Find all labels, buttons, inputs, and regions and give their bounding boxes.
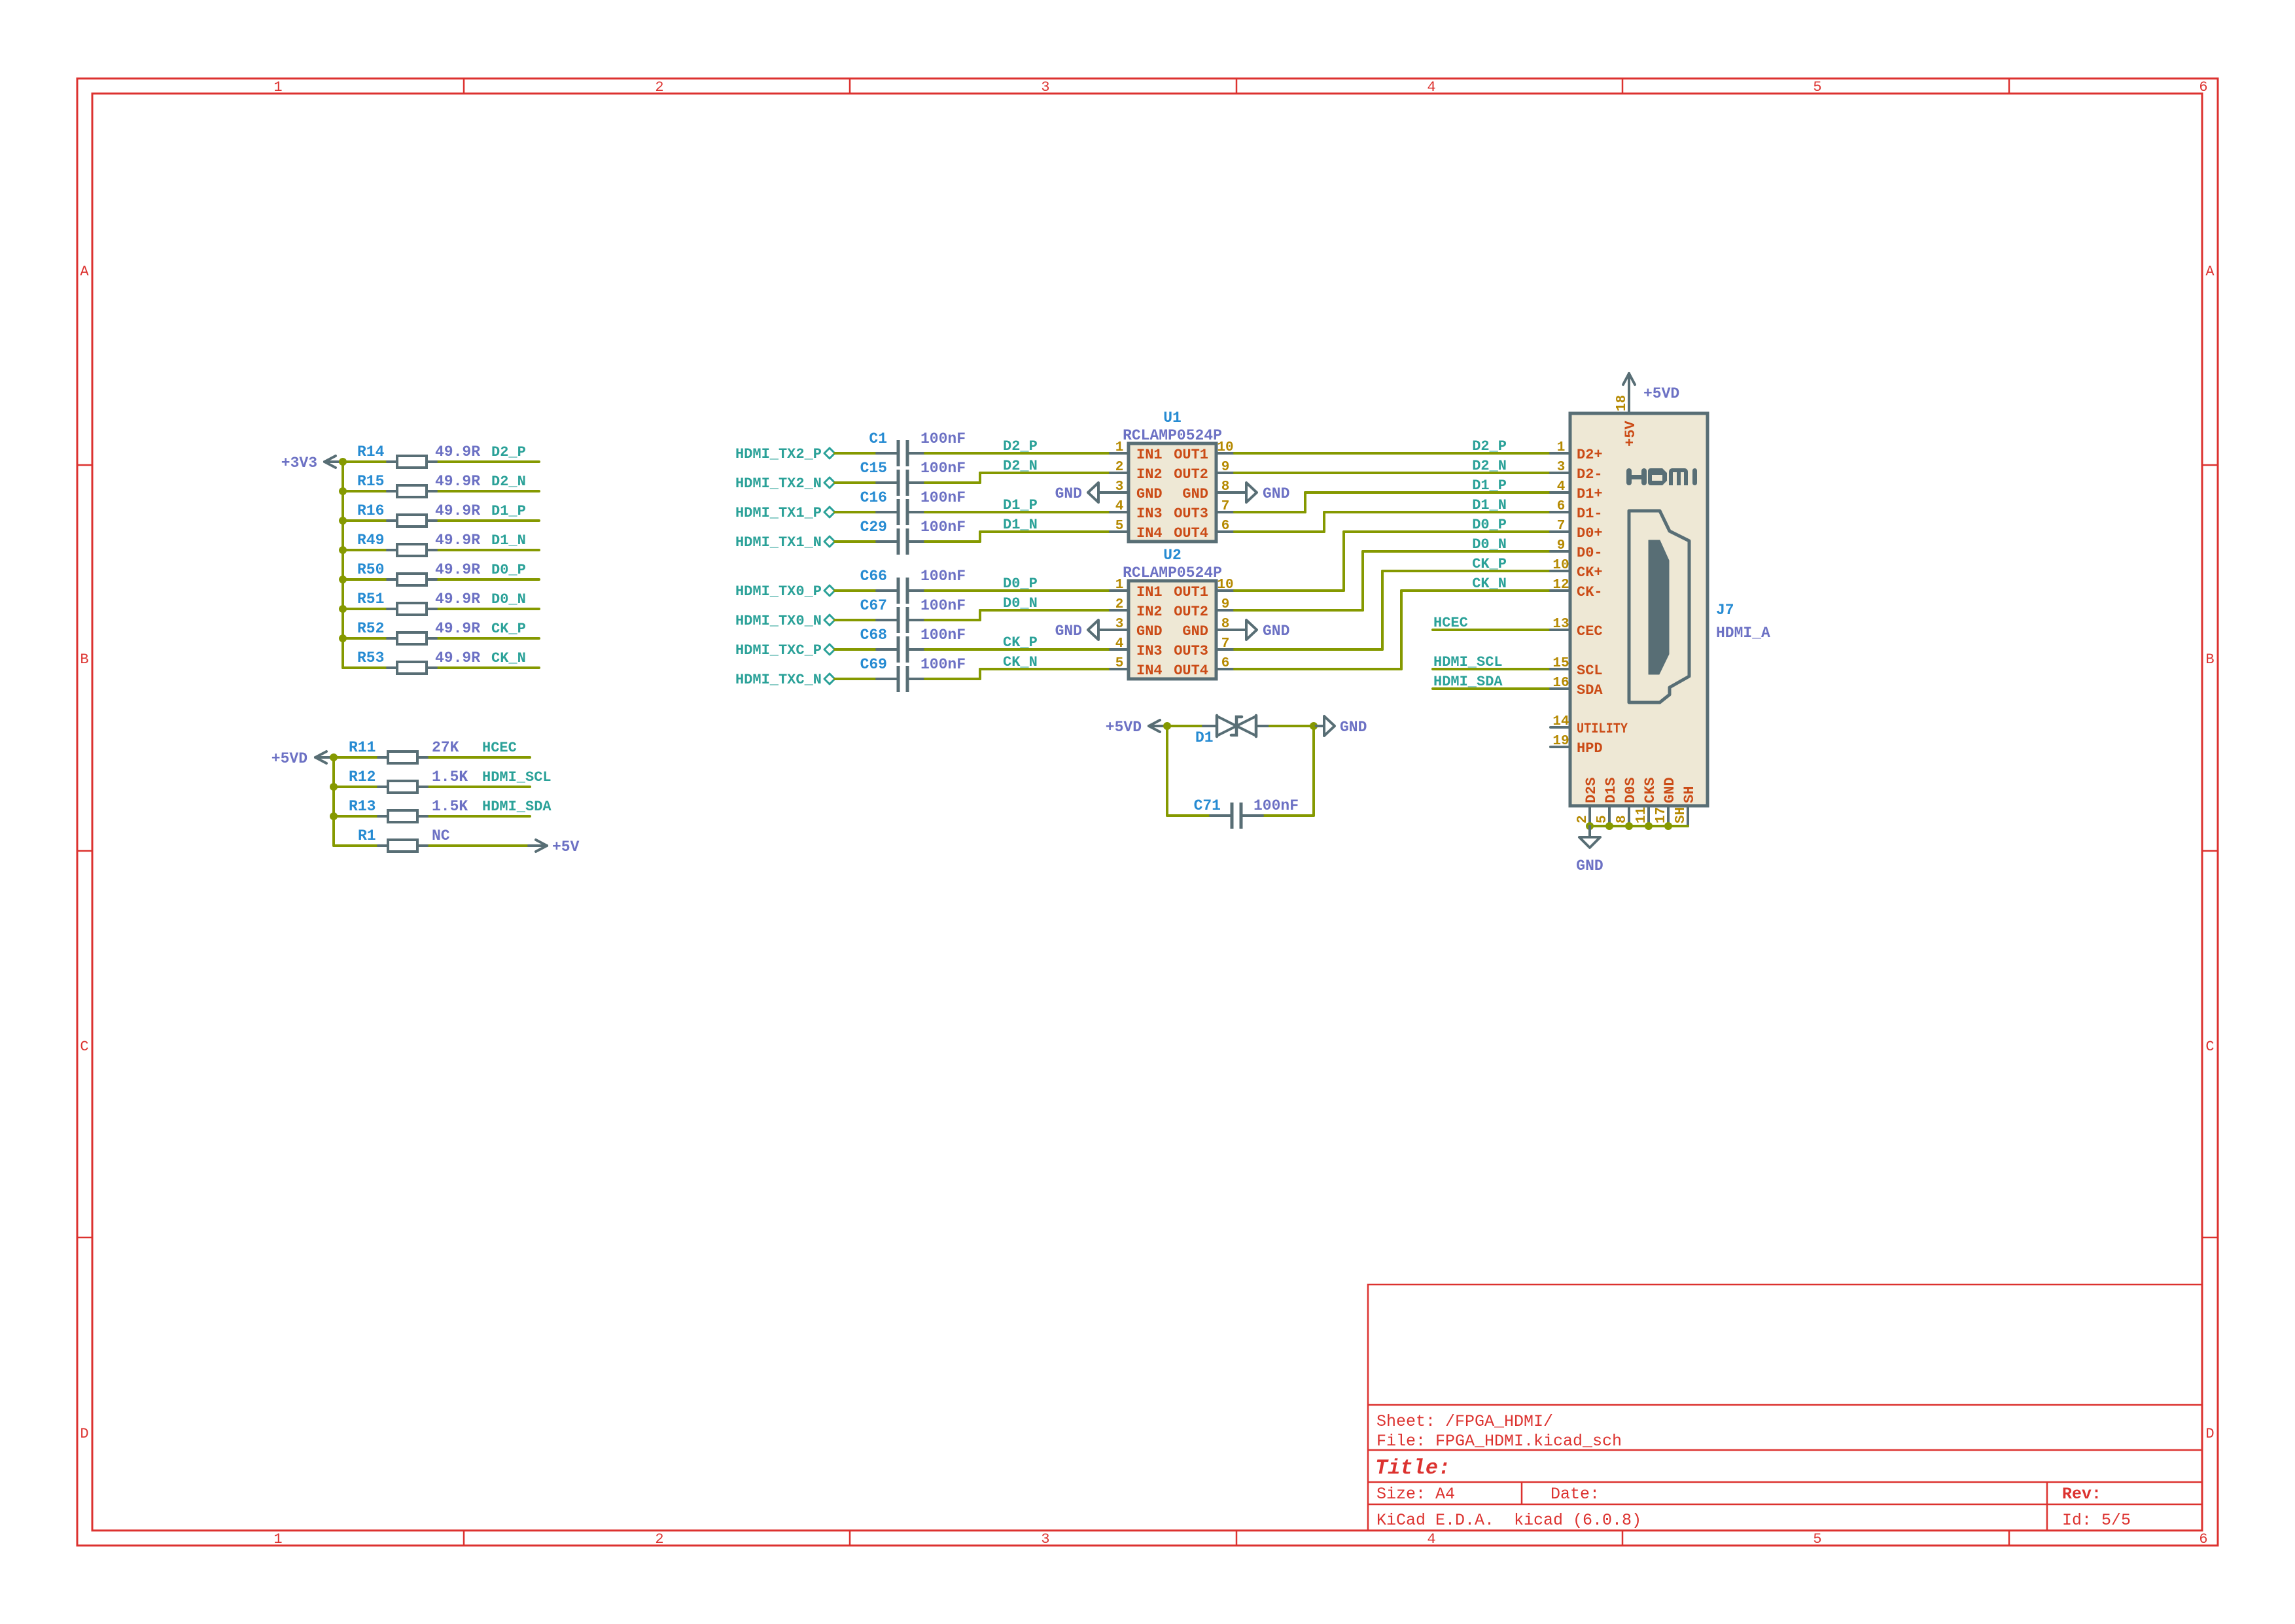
svg-text:HPD: HPD (1577, 740, 1603, 757)
net label D1_N (491, 532, 526, 549)
svg-text:D0-: D0- (1577, 545, 1603, 561)
J7 pin 16 SDA (1550, 676, 1603, 699)
svg-text:D0_P: D0_P (1003, 576, 1038, 592)
svg-text:4: 4 (1427, 79, 1435, 95)
wire R50 row (343, 578, 539, 581)
J7 pin SH SH (1673, 786, 1698, 826)
capacitor C69 100nF (860, 656, 966, 692)
hierarchical label HDMI_TXC_N (735, 672, 835, 688)
junction at +3V3 bus row 2 (339, 487, 347, 495)
U2 pin 5 IN4 (1110, 656, 1163, 679)
J7 pin 6 D1- (1550, 499, 1603, 522)
ground at U1 pin 3 (1055, 483, 1110, 502)
wire R52 row (343, 637, 539, 640)
net label CK_P at U2 input (1003, 634, 1038, 651)
wire D1 to GND (1270, 725, 1314, 727)
svg-text:49.9R: 49.9R (435, 620, 480, 637)
svg-text:HDMI_TXC_P: HDMI_TXC_P (735, 642, 822, 659)
wire C66 to U pin (925, 589, 1110, 592)
hierarchical label HDMI_TX2_P (735, 446, 835, 462)
svg-text:R49: R49 (357, 532, 384, 549)
svg-text:+5V: +5V (1622, 421, 1639, 447)
svg-text:D1+: D1+ (1577, 486, 1603, 502)
svg-text:C66: C66 (860, 568, 887, 585)
net label D2_N at J7 (1472, 458, 1507, 474)
resistor R1 (358, 827, 450, 852)
wire net HDMI_SCL to J7 (1433, 668, 1550, 670)
svg-text:D0_N: D0_N (1003, 595, 1038, 612)
power +5VD left (272, 750, 334, 767)
svg-text:11: 11 (1634, 807, 1649, 823)
svg-text:CK_P: CK_P (1472, 556, 1507, 572)
resistor R14 (357, 443, 480, 468)
svg-text:4: 4 (1427, 1531, 1435, 1547)
wire HDMI_TX0_P to C66 (835, 589, 881, 592)
svg-text:5: 5 (1115, 519, 1124, 534)
U1 pin 4 IN3 (1110, 499, 1163, 522)
svg-text:5: 5 (1813, 79, 1821, 95)
junction at +3V3 bus row 6 (339, 605, 347, 613)
svg-text:7: 7 (1221, 499, 1230, 514)
capacitor C67 100nF (860, 597, 966, 633)
svg-text:R1: R1 (358, 827, 376, 844)
U1 pin 3 GND (1110, 479, 1163, 502)
resistor R16 (357, 502, 480, 527)
svg-text:+5V: +5V (552, 838, 580, 855)
svg-text:Rev:: Rev: (2062, 1485, 2101, 1504)
hierarchical label HDMI_TX1_N (735, 534, 835, 551)
svg-text:10: 10 (1217, 440, 1233, 455)
svg-text:C67: C67 (860, 597, 887, 614)
svg-text:3: 3 (1041, 1531, 1049, 1547)
svg-text:12: 12 (1552, 578, 1569, 593)
wire net D1_P to J7 (1235, 492, 1550, 512)
svg-text:16: 16 (1552, 676, 1569, 691)
junction at +3V3 bus row 4 (339, 546, 347, 554)
svg-text:D1: D1 (1195, 729, 1214, 746)
svg-text:CK_N: CK_N (1472, 576, 1507, 592)
net label D2_P (491, 444, 526, 460)
svg-text:18: 18 (1615, 395, 1630, 411)
net label D0_N at U2 input (1003, 595, 1038, 612)
title block kicad text (1376, 1511, 1641, 1530)
svg-text:100nF: 100nF (920, 568, 966, 585)
resistor R15 (357, 473, 480, 497)
svg-text:13: 13 (1552, 617, 1569, 632)
svg-text:B: B (80, 651, 88, 668)
svg-text:1: 1 (1115, 440, 1124, 455)
resistor R51 (357, 591, 480, 615)
J7 pin 3 D2- (1550, 460, 1603, 483)
svg-text:+5VD: +5VD (1643, 385, 1679, 402)
ground at D1 (1314, 716, 1367, 736)
hierarchical label HDMI_TX0_N (735, 613, 835, 629)
J7 pin 14 UTILITY (1550, 714, 1628, 737)
svg-text:C69: C69 (860, 656, 887, 673)
svg-text:J7: J7 (1716, 602, 1734, 619)
svg-text:5: 5 (1115, 656, 1124, 671)
svg-text:100nF: 100nF (920, 597, 966, 614)
svg-text:D1S: D1S (1603, 777, 1619, 803)
U2 pin 6 OUT4 (1174, 656, 1235, 679)
junction shield bus 2 (1605, 822, 1613, 830)
svg-text:2: 2 (1115, 597, 1124, 612)
junction at +3V3 bus row 5 (339, 576, 347, 583)
svg-text:C71: C71 (1194, 797, 1221, 814)
svg-text:OUT3: OUT3 (1174, 506, 1208, 522)
junction at +5VD bus row 2 (330, 783, 338, 791)
svg-text:+5VD: +5VD (272, 750, 307, 767)
svg-text:49.9R: 49.9R (435, 649, 480, 666)
hierarchical label HDMI_TX2_N (735, 475, 835, 492)
J7 pin 4 D1+ (1550, 479, 1603, 502)
svg-text:IN1: IN1 (1136, 584, 1163, 600)
svg-text:OUT1: OUT1 (1174, 584, 1208, 600)
junction shield bus 4 (1645, 822, 1653, 830)
junction at +3V3 bus row 7 (339, 634, 347, 642)
wire HDMI_TX2_N to C15 (835, 481, 881, 484)
U2 pin 10 OUT1 (1174, 578, 1235, 600)
net label D1_P at U1 input (1003, 497, 1038, 513)
svg-text:100nF: 100nF (920, 519, 966, 536)
HDMI receptacle graphic (1629, 511, 1689, 702)
svg-text:R16: R16 (357, 502, 384, 519)
svg-text:6: 6 (1221, 656, 1230, 671)
title block file text (1376, 1432, 1622, 1451)
capacitor C68 100nF (860, 627, 966, 663)
svg-text:D1-: D1- (1577, 506, 1603, 522)
svg-text:R15: R15 (357, 473, 384, 490)
net label D1_P at J7 (1472, 477, 1507, 494)
capacitor C71 100nF (1194, 797, 1299, 829)
svg-text:U1: U1 (1163, 409, 1182, 426)
svg-text:D: D (2205, 1426, 2214, 1442)
svg-text:1: 1 (1115, 578, 1124, 593)
wire C15 to U pin (925, 473, 1110, 483)
svg-text:17: 17 (1654, 807, 1669, 823)
svg-text:A: A (80, 264, 89, 280)
J7 pin 10 CK+ (1550, 558, 1603, 581)
svg-text:HDMI_TX1_P: HDMI_TX1_P (735, 505, 822, 521)
svg-text:IN2: IN2 (1136, 466, 1163, 483)
svg-text:27K: 27K (432, 739, 459, 756)
svg-text:10: 10 (1217, 578, 1233, 593)
net label D0_N (491, 591, 526, 608)
U1 pin 6 OUT4 (1174, 519, 1235, 542)
svg-text:Sheet: /FPGA_HDMI/: Sheet: /FPGA_HDMI/ (1376, 1412, 1553, 1431)
svg-text:10: 10 (1552, 558, 1569, 573)
svg-text:D2_P: D2_P (491, 444, 526, 460)
svg-text:C: C (80, 1039, 88, 1055)
svg-text:D2_N: D2_N (491, 474, 526, 490)
wire net CK_N to J7 (1235, 591, 1550, 669)
svg-text:HCEC: HCEC (1433, 615, 1468, 631)
net label D0_N at J7 (1472, 536, 1507, 553)
hierarchical label HDMI_TX0_P (735, 583, 835, 600)
svg-text:A: A (2205, 264, 2215, 280)
svg-text:GND: GND (1136, 623, 1163, 640)
svg-text:HDMI_SDA: HDMI_SDA (1433, 674, 1503, 690)
wire +5VD to D1 (1167, 725, 1203, 727)
junction at +5VD bus row 3 (330, 812, 338, 820)
ground at U1 pin 8 (1235, 483, 1289, 502)
svg-text:CK_N: CK_N (491, 650, 526, 666)
svg-text:7: 7 (1221, 636, 1230, 651)
net label HDMI_SCL (482, 769, 552, 786)
svg-text:GND: GND (1055, 623, 1082, 640)
frame row labels (80, 264, 2215, 1442)
svg-text:R12: R12 (349, 769, 376, 786)
svg-text:D1_N: D1_N (1472, 497, 1507, 513)
title block rev text (2062, 1485, 2101, 1504)
frame column labels (273, 79, 2207, 1547)
svg-text:3: 3 (1115, 479, 1124, 494)
wire net D0_P to J7 (1235, 532, 1550, 591)
svg-text:100nF: 100nF (920, 489, 966, 506)
capacitor C29 100nF (860, 519, 966, 555)
wire R49 row (343, 549, 539, 551)
svg-text:5: 5 (1595, 815, 1610, 823)
svg-text:D1_P: D1_P (1003, 497, 1038, 513)
svg-text:R13: R13 (349, 798, 376, 815)
diode D1 TVS (1195, 716, 1270, 746)
wire C16 to U pin (925, 511, 1110, 513)
net label D0_P at U2 input (1003, 576, 1038, 592)
net label D2_P at U1 input (1003, 438, 1038, 455)
svg-text:R11: R11 (349, 739, 376, 756)
svg-text:C1: C1 (869, 430, 887, 447)
wire net HDMI_SDA to J7 (1433, 687, 1550, 690)
svg-text:D2_N: D2_N (1472, 458, 1507, 474)
svg-text:Title:: Title: (1375, 1456, 1450, 1480)
svg-text:GND: GND (1136, 486, 1163, 502)
svg-text:File: FPGA_HDMI.kicad_sch: File: FPGA_HDMI.kicad_sch (1376, 1432, 1622, 1451)
svg-text:HDMI_TX1_N: HDMI_TX1_N (735, 534, 822, 551)
resistor R49 (357, 532, 480, 556)
svg-text:6: 6 (2199, 79, 2207, 95)
junction at +3V3 bus row 3 (339, 517, 347, 525)
U2 pin 7 OUT3 (1174, 636, 1235, 659)
U1 pin 5 IN4 (1110, 519, 1163, 542)
svg-text:GND: GND (1263, 623, 1289, 640)
capacitor C1 100nF (869, 430, 966, 466)
svg-text:49.9R: 49.9R (435, 591, 480, 608)
svg-text:3: 3 (1557, 460, 1566, 475)
svg-text:1: 1 (273, 1531, 282, 1547)
svg-text:HDMI_TX2_N: HDMI_TX2_N (735, 475, 822, 492)
svg-text:C29: C29 (860, 519, 887, 536)
capacitor C66 100nF (860, 568, 966, 604)
svg-text:OUT3: OUT3 (1174, 643, 1208, 659)
svg-text:Date:: Date: (1550, 1485, 1600, 1504)
title block sheet text (1376, 1412, 1553, 1431)
net label D2_N at U1 input (1003, 458, 1038, 474)
net label CK_N (491, 650, 526, 666)
U1 pin 9 OUT2 (1174, 460, 1235, 483)
svg-text:100nF: 100nF (920, 656, 966, 673)
svg-text:KiCad E.D.A. kicad (6.0.8): KiCad E.D.A. kicad (6.0.8) (1376, 1511, 1641, 1530)
svg-text:D0+: D0+ (1577, 525, 1603, 542)
svg-text:OUT4: OUT4 (1174, 663, 1208, 679)
svg-text:RCLAMP0524P: RCLAMP0524P (1123, 427, 1222, 444)
resistor R13 (349, 798, 468, 822)
ic U2 RCLAMP0524P body (1123, 547, 1222, 679)
wire +5VD bus vertical (332, 757, 335, 846)
U2 pin 4 IN3 (1110, 636, 1163, 659)
net label CK_N at U2 input (1003, 654, 1038, 670)
svg-text:R14: R14 (357, 443, 385, 460)
svg-text:D2_P: D2_P (1472, 438, 1507, 455)
svg-text:1.5K: 1.5K (432, 769, 468, 786)
svg-text:C68: C68 (860, 627, 887, 644)
wire R16 row (343, 519, 539, 522)
wire C29 to U pin (925, 532, 1110, 542)
wire C71 left (1167, 814, 1210, 817)
power +5V (529, 838, 580, 855)
net label D2_P at J7 (1472, 438, 1507, 455)
U2 pin 3 GND (1110, 617, 1163, 640)
svg-text:IN3: IN3 (1136, 643, 1163, 659)
svg-text:OUT2: OUT2 (1174, 466, 1208, 483)
net label D0_P (491, 562, 526, 578)
U2 pin 2 IN2 (1110, 597, 1163, 620)
svg-text:RCLAMP0524P: RCLAMP0524P (1123, 564, 1222, 581)
svg-text:GND: GND (1182, 623, 1208, 640)
net label D0_P at J7 (1472, 517, 1507, 533)
junction at +5VD bus row 1 (330, 753, 338, 761)
J7 pin 1 D2+ (1550, 440, 1603, 463)
svg-text:3: 3 (1115, 617, 1124, 632)
svg-text:SDA: SDA (1577, 682, 1603, 699)
svg-text:HDMI_SDA: HDMI_SDA (482, 799, 552, 815)
wire C67 to U pin (925, 610, 1110, 620)
wire R12 row (334, 786, 530, 788)
resistor R52 (357, 620, 480, 644)
svg-text:2: 2 (655, 79, 663, 95)
ic U1 RCLAMP0524P body (1123, 409, 1222, 542)
wire net CK_P to J7 (1235, 571, 1550, 649)
net label HCEC at J7 (1433, 615, 1468, 631)
title block frame (1368, 1285, 2202, 1530)
svg-text:CK_N: CK_N (1003, 654, 1038, 670)
svg-text:100nF: 100nF (920, 627, 966, 644)
connector J7 HDMI_A body (1570, 413, 1770, 806)
svg-text:IN4: IN4 (1136, 525, 1163, 542)
J7 pin 5 D1S (1595, 777, 1619, 826)
U2 pin 1 IN1 (1110, 578, 1163, 600)
svg-text:8: 8 (1221, 617, 1230, 632)
J7 pin 12 CK- (1550, 578, 1603, 600)
junction shield bus 3 (1625, 822, 1633, 830)
title block id text (2062, 1511, 2131, 1530)
svg-text:CK_P: CK_P (491, 621, 526, 637)
power +5VD at D1 (1106, 719, 1167, 736)
svg-text:15: 15 (1552, 656, 1569, 671)
wire HDMI_TX1_P to C16 (835, 511, 881, 513)
junction D1 left (1163, 722, 1171, 730)
svg-text:D0_P: D0_P (491, 562, 526, 578)
wire C69 to U pin (925, 669, 1110, 679)
svg-text:CEC: CEC (1577, 623, 1603, 640)
J7 pin 19 HPD (1550, 734, 1603, 757)
resistor R11 (349, 739, 459, 763)
svg-text:49.9R: 49.9R (435, 561, 480, 578)
svg-text:GND: GND (1263, 485, 1289, 502)
svg-text:6: 6 (1557, 499, 1566, 514)
power +3V3 (281, 455, 343, 472)
svg-text:R52: R52 (357, 620, 384, 637)
wire D1 loop left vertical (1166, 726, 1168, 816)
svg-text:R53: R53 (357, 649, 384, 666)
svg-text:OUT4: OUT4 (1174, 525, 1208, 542)
svg-text:C16: C16 (860, 489, 887, 506)
junction shield bus 5 (1664, 822, 1672, 830)
svg-text:2: 2 (1575, 815, 1590, 823)
svg-text:1: 1 (1557, 440, 1566, 455)
wire HDMI_TX2_P to C1 (835, 452, 881, 455)
resistor R50 (357, 561, 480, 585)
svg-text:49.9R: 49.9R (435, 532, 480, 549)
wire D1 loop right vertical (1312, 726, 1315, 816)
title block date text (1550, 1485, 1600, 1504)
svg-text:IN3: IN3 (1136, 506, 1163, 522)
resistor R12 (349, 769, 468, 793)
svg-text:OUT1: OUT1 (1174, 447, 1208, 463)
net label CK_P at J7 (1472, 556, 1507, 572)
svg-text:D2+: D2+ (1577, 447, 1603, 463)
wire HDMI_TXC_P to C68 (835, 648, 881, 651)
title block title text (1375, 1456, 1450, 1480)
svg-text:100nF: 100nF (1253, 797, 1299, 814)
svg-text:1: 1 (273, 79, 282, 95)
wire C71 right (1263, 814, 1314, 817)
svg-text:D2_P: D2_P (1003, 438, 1038, 455)
svg-text:CKS: CKS (1642, 777, 1658, 803)
ground below J7 (1576, 826, 1603, 874)
J7 pin 17 GND (1654, 777, 1678, 826)
wire net HCEC to J7 (1433, 629, 1550, 631)
svg-text:C: C (2205, 1039, 2214, 1055)
svg-text:GND: GND (1182, 486, 1208, 502)
net label HDMI_SDA at J7 (1433, 674, 1503, 690)
hierarchical label HDMI_TXC_P (735, 642, 835, 659)
svg-text:CK_P: CK_P (1003, 634, 1038, 651)
capacitor C16 100nF (860, 489, 966, 525)
svg-text:D0_P: D0_P (1472, 517, 1507, 533)
wire R14 row (343, 460, 539, 463)
svg-text:GND: GND (1055, 485, 1082, 502)
J7 pin 13 CEC (1550, 617, 1603, 640)
svg-text:6: 6 (2199, 1531, 2207, 1547)
junction D1 right (1310, 722, 1318, 730)
title block size text (1376, 1485, 1455, 1504)
wire net D2_P to J7 (1235, 452, 1550, 455)
svg-text:D0_N: D0_N (1472, 536, 1507, 553)
svg-text:NC: NC (432, 827, 450, 844)
wire J7 shield bus (1590, 825, 1688, 827)
svg-text:D1_N: D1_N (1003, 517, 1038, 533)
wire HDMI_TX1_N to C29 (835, 540, 881, 543)
svg-text:8: 8 (1615, 815, 1630, 823)
svg-text:Id: 5/5: Id: 5/5 (2062, 1511, 2131, 1530)
svg-text:HDMI_TXC_N: HDMI_TXC_N (735, 672, 822, 688)
J7 pin 11 CKS (1634, 777, 1658, 826)
svg-text:IN2: IN2 (1136, 604, 1163, 620)
svg-text:5: 5 (1813, 1531, 1821, 1547)
svg-text:49.9R: 49.9R (435, 502, 480, 519)
svg-text:2: 2 (1115, 460, 1124, 475)
wire C1 to U pin (925, 452, 1110, 455)
